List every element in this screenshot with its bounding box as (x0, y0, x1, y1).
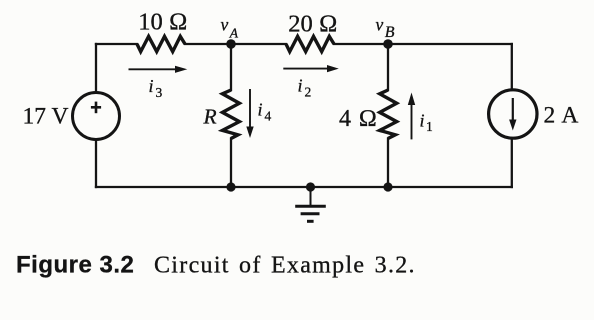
svg-text:vA: vA (221, 15, 239, 41)
wire right lower vertical (511, 138, 513, 187)
resistor 4 ohm zigzag (380, 90, 397, 139)
wire top-left horizontal (96, 43, 137, 45)
wire 4 ohm resistor to bottom (387, 139, 389, 188)
wire left lower vertical (95, 140, 97, 188)
resistor 10 ohm zigzag (137, 36, 185, 51)
node A junction dot (226, 39, 236, 49)
svg-text:20 Ω: 20 Ω (288, 11, 337, 38)
wire node A to resistor R (230, 44, 232, 90)
wire top middle (10 ohm to 20 ohm, through node A) (185, 43, 286, 45)
svg-text:2 A: 2 A (544, 103, 580, 129)
current arrow i2 (283, 65, 339, 72)
svg-text:Figure 3.2: Figure 3.2 (16, 252, 134, 279)
ground (295, 189, 326, 221)
voltage source V1 circle (73, 93, 120, 140)
svg-text:R: R (203, 105, 217, 129)
junction dot bottom ground (306, 182, 315, 191)
junction dot bottom below R (226, 182, 235, 191)
node B junction dot (383, 39, 393, 49)
svg-text:4 Ω: 4 Ω (339, 106, 378, 132)
svg-text:i2: i2 (298, 76, 312, 100)
current arrow i3 (129, 66, 188, 73)
wire top right (20 ohm to right corner) (334, 43, 512, 45)
svg-text:17 V: 17 V (23, 104, 69, 130)
resistor R zigzag (222, 90, 239, 139)
wire bottom horizontal (96, 186, 512, 188)
svg-text:vB: vB (376, 15, 395, 42)
junction dot bottom below 4 ohm (383, 182, 392, 191)
svg-text:10 Ω: 10 Ω (138, 9, 187, 36)
svg-text:Circuit of Example 3.2.: Circuit of Example 3.2. (154, 253, 416, 279)
voltage source plus sign (91, 102, 101, 114)
wire right upper vertical (511, 44, 513, 90)
svg-text:i4: i4 (258, 100, 272, 124)
wire left upper vertical (95, 44, 97, 93)
resistor 20 ohm zigzag (286, 36, 334, 51)
current source arrow (509, 98, 516, 131)
wire node B to 4 ohm resistor (387, 44, 389, 90)
wire resistor R to bottom (230, 139, 232, 188)
current arrow i4 (246, 89, 253, 138)
svg-text:i3: i3 (149, 76, 163, 100)
svg-text:i1: i1 (420, 111, 433, 135)
current arrow i1 (408, 93, 415, 140)
current source I1 circle (489, 90, 537, 138)
